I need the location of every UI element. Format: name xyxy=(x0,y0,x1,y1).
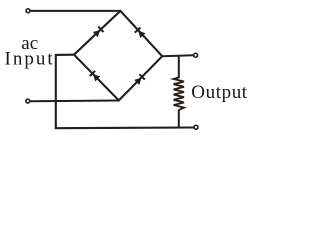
svg-text:Input: Input xyxy=(5,48,55,69)
svg-text:Output: Output xyxy=(191,82,247,103)
